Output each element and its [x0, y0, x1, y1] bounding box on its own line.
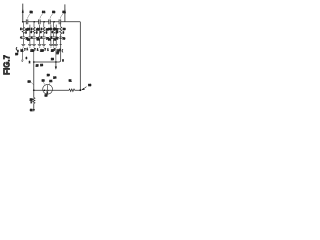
svg-text:79: 79: [62, 38, 65, 41]
wire down to middle rail: [59, 34, 61, 62]
shunt branch 8 x=56.2: [53, 25, 60, 53]
svg-text:52: 52: [30, 10, 33, 14]
svg-text:27: 27: [56, 52, 59, 55]
ground: [52, 44, 56, 47]
svg-text:16: 16: [40, 65, 43, 67]
output terminal arrow: [64, 4, 66, 21]
capacitor Ca3: [32, 37, 35, 39]
shunt branch 7 x=53.6: [51, 22, 60, 53]
svg-text:1: 1: [37, 50, 39, 52]
svg-text:3: 3: [63, 32, 65, 34]
svg-text:69: 69: [63, 28, 66, 31]
capacitor Cb2: [29, 37, 32, 39]
svg-text:5: 5: [41, 29, 43, 31]
terminal stub arrow 24: [47, 62, 57, 80]
inductor L67: [52, 27, 54, 33]
svg-text:34: 34: [49, 80, 52, 83]
shunt branch 2 x=29.9: [27, 25, 34, 53]
capacitor on branch9: [59, 37, 62, 39]
node dot 2: [33, 21, 35, 23]
ground: [28, 44, 32, 47]
svg-text:2: 2: [29, 62, 31, 64]
svg-text:24: 24: [53, 76, 56, 80]
shunt branch 5 x=43.8: [41, 22, 50, 53]
capacitor C56: [49, 10, 56, 24]
ground: [32, 44, 36, 47]
capacitor Ca5: [42, 37, 45, 39]
svg-text:28: 28: [51, 58, 54, 61]
svg-text:3: 3: [31, 32, 33, 34]
branch1 lower stub wire: [15, 48, 23, 61]
node dot E: [33, 61, 35, 63]
svg-text:(: (: [62, 51, 63, 53]
node dot 3: [43, 21, 45, 23]
svg-text:36: 36: [88, 83, 91, 87]
svg-text:3: 3: [40, 32, 42, 34]
node dot G: [33, 89, 35, 91]
capacitor C52: [26, 10, 33, 24]
svg-text:5: 5: [20, 29, 22, 31]
svg-text:30: 30: [28, 79, 31, 83]
capacitor Cb8: [55, 37, 58, 39]
right bus corner wire: [79, 22, 81, 90]
shunt branch 4 x=39.6: [37, 25, 44, 53]
svg-text:15: 15: [36, 65, 39, 67]
capacitor Ca1: [22, 37, 25, 39]
svg-text:3: 3: [46, 33, 48, 35]
svg-text:58: 58: [63, 10, 66, 14]
ground: [21, 44, 25, 47]
svg-text:32: 32: [30, 110, 33, 112]
oscillator circle 33: [42, 79, 53, 97]
input terminal arrow: [22, 4, 24, 22]
svg-text:35: 35: [45, 95, 48, 98]
svg-text:3: 3: [25, 33, 27, 35]
svg-text:54: 54: [42, 10, 45, 14]
svg-text:5: 5: [31, 29, 33, 31]
ground: [54, 44, 58, 47]
capacitor Cb4: [38, 37, 41, 39]
riser wire from column 3: [33, 51, 35, 62]
leader arrow 36: [81, 83, 92, 90]
resistor 31: [69, 79, 75, 91]
shunt branch 3 x=34.0: [31, 22, 40, 53]
shunt branch 6 x=50.9: [48, 25, 55, 53]
resistor 28 vertical: [30, 90, 35, 112]
resistor 69: [60, 27, 62, 34]
svg-text:6: 6: [26, 58, 28, 60]
node dot F: [55, 61, 57, 63]
svg-text:5: 5: [51, 29, 53, 31]
capacitor C58: [59, 10, 66, 24]
inductor L63: [33, 27, 35, 33]
ground: [42, 44, 46, 47]
node dot I: [79, 89, 81, 91]
riser wire from column 8: [55, 49, 57, 62]
branch 9 resistor column x=60.7: [56, 22, 66, 63]
inductor L65: [43, 27, 45, 33]
middle rail wire y=62: [34, 61, 59, 63]
svg-text:7: 7: [34, 49, 36, 51]
svg-text:31: 31: [69, 79, 72, 82]
svg-text:3: 3: [36, 33, 38, 35]
bottom bus wire: [34, 89, 81, 91]
node dot 1: [22, 21, 24, 23]
top bus wire: [23, 21, 81, 23]
svg-text:29: 29: [47, 74, 50, 77]
svg-text:1: 1: [47, 49, 49, 51]
ground: [49, 44, 53, 47]
svg-text:FIG.7: FIG.7: [3, 55, 12, 75]
node dot J: [33, 109, 35, 111]
ground: [38, 44, 42, 47]
shunt branch 1 x=23.3: [20, 22, 29, 53]
capacitor Ca7: [52, 37, 55, 39]
svg-text:20: 20: [15, 53, 18, 56]
svg-text:7: 7: [45, 50, 47, 52]
svg-text:28: 28: [30, 98, 33, 101]
label 30: [28, 79, 34, 84]
svg-text:1: 1: [31, 102, 33, 104]
capacitor Cb6: [50, 37, 53, 39]
svg-text:3: 3: [57, 32, 59, 34]
node dot 4: [53, 21, 55, 23]
inductor L61: [22, 27, 24, 33]
svg-text:5: 5: [62, 60, 64, 62]
svg-text:56: 56: [52, 10, 55, 14]
capacitor C54: [39, 10, 46, 24]
svg-text:1: 1: [27, 49, 29, 51]
left column wire to bottom bus: [33, 62, 35, 90]
